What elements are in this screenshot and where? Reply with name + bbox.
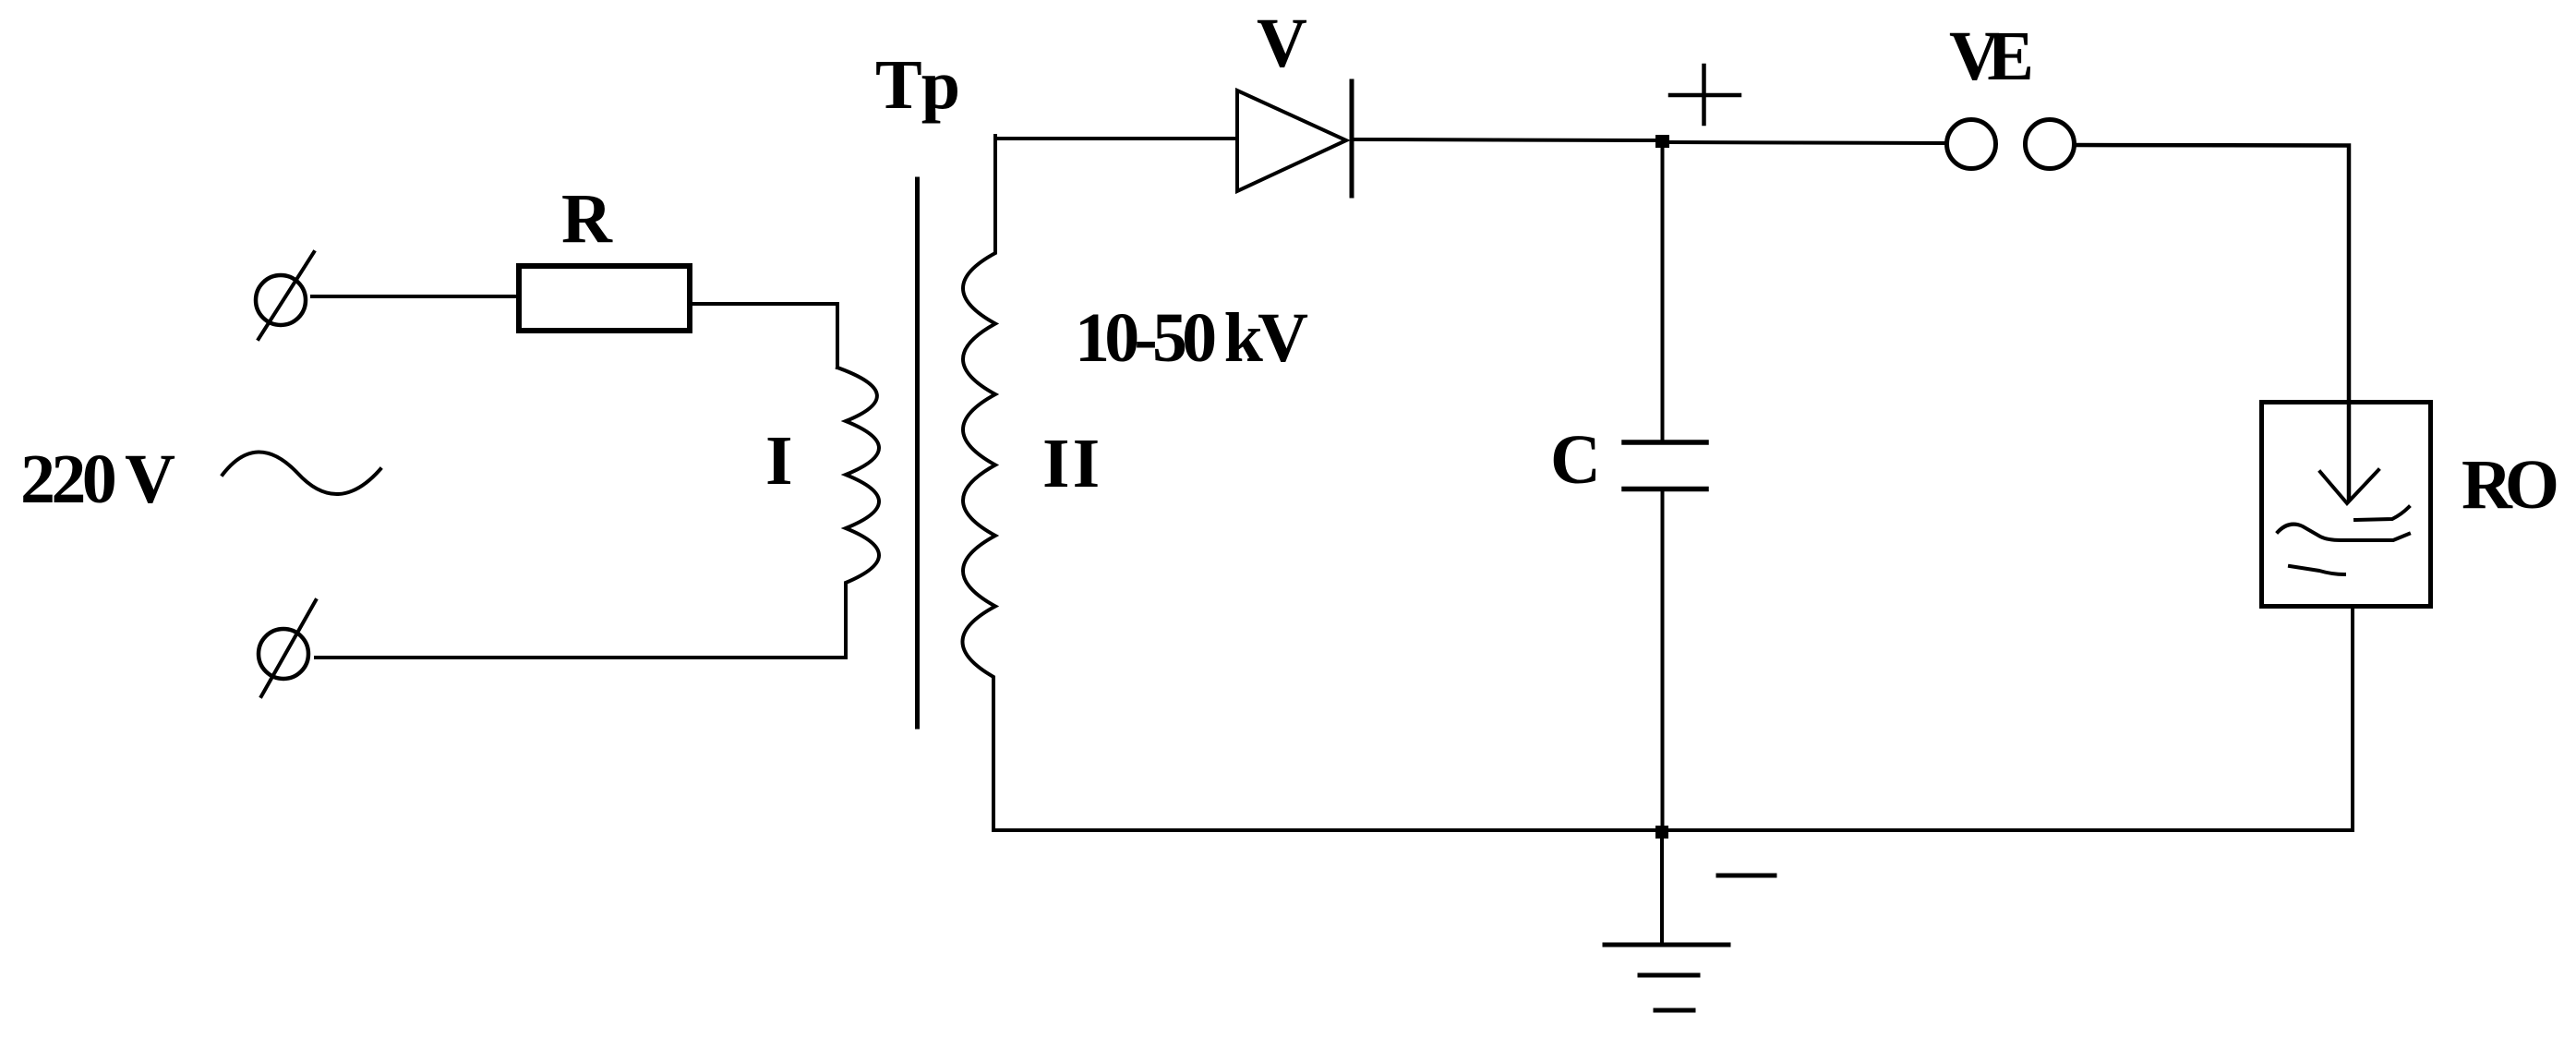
node junction bottom — [1655, 826, 1668, 839]
liquid surface line right — [2355, 507, 2409, 520]
electrode arrow head — [2320, 470, 2378, 503]
switch VE left contact — [1947, 120, 1996, 169]
RO chamber box — [2262, 403, 2431, 607]
wire RO bottom to bus — [2351, 609, 2354, 830]
wire VE to RO electrode — [2075, 145, 2349, 499]
ground bar 3 — [1655, 1008, 1693, 1013]
svg-text:I: I — [765, 422, 793, 500]
capacitor C upper lead — [1661, 140, 1665, 442]
ground stem — [1660, 832, 1664, 945]
resistor R — [519, 266, 690, 331]
svg-text:V: V — [1257, 5, 1307, 82]
capacitor C lower lead — [1661, 489, 1665, 830]
terminal plug upper — [256, 252, 314, 339]
label plus — [1670, 66, 1739, 124]
svg-text:II: II — [1042, 425, 1102, 502]
svg-text:10-50 kV: 10-50 kV — [1075, 299, 1308, 377]
liquid surface line lower — [2290, 566, 2344, 574]
wire plug to R — [312, 295, 519, 298]
wire diode to node — [1352, 139, 1657, 140]
svg-text:VE: VE — [1949, 18, 2034, 95]
label minus — [1718, 874, 1775, 878]
terminal plug lower — [259, 600, 316, 696]
ground bar 2 — [1640, 973, 1698, 978]
diode V anode triangle — [1237, 91, 1346, 191]
svg-text:R: R — [561, 180, 613, 258]
svg-text:220 V: 220 V — [20, 441, 175, 518]
svg-text:RO: RO — [2462, 446, 2559, 524]
AC source sine symbol — [223, 452, 380, 494]
diode V cathode bar — [1350, 81, 1354, 196]
wire secondary to diode — [995, 137, 1235, 140]
transformer core — [915, 179, 920, 727]
svg-text:Tp: Tp — [875, 46, 960, 124]
wire R to transformer primary — [692, 304, 837, 368]
capacitor C bottom plate — [1624, 487, 1706, 492]
ground bar 1 — [1605, 943, 1728, 947]
wire primary bottom to lower plug — [316, 656, 846, 659]
svg-text:C: C — [1550, 421, 1601, 499]
secondary winding II — [962, 136, 995, 830]
node junction top — [1655, 135, 1669, 148]
liquid surface line middle — [2278, 525, 2409, 540]
capacitor C top plate — [1624, 440, 1706, 445]
switch VE right contact — [2026, 120, 2075, 169]
primary winding I — [837, 368, 879, 658]
bottom bus wire — [993, 828, 2353, 832]
wire node to VE — [1669, 142, 1946, 143]
